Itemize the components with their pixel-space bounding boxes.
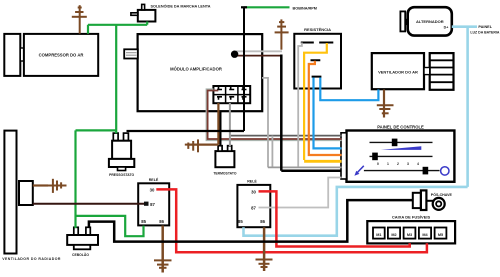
panel AC circle [441, 167, 449, 175]
wire green BOBINA/RPM stub [244, 6, 317, 10]
svg-text:CEBOLÃO: CEBOLÃO [72, 252, 89, 257]
panel slider 3 [364, 167, 440, 175]
svg-text:86: 86 [159, 219, 164, 224]
wire red relay K2 30 to fuse M3 [259, 191, 410, 246]
wire dark-gray to panel [230, 135, 342, 137]
ground G4 (brown) [154, 260, 172, 267]
wire yellow resistor pack to panel [304, 43, 341, 161]
fuse M5 [435, 228, 447, 239]
svg-text:TERMOSTATO: TERMOSTATO [213, 171, 237, 175]
wire brown relay K2 86 down [263, 227, 266, 271]
svg-text:COMPRESSOR DO AR: COMPRESSOR DO AR [39, 53, 84, 58]
radiator fan VENTILADOR DO RADIADOR [2, 131, 61, 261]
relay K1 box [138, 177, 169, 225]
wire gray from junction dot to ground stem [236, 50, 282, 52]
panel fan speed numbers [377, 162, 419, 166]
ground G2 (brown, above resistor pack) [275, 19, 289, 49]
svg-text:30: 30 [150, 187, 155, 192]
ground G5 (brown) [256, 260, 273, 268]
module box MODULO AMPLIFICADOR [138, 34, 263, 111]
ground G7 (sideways right, brown) [48, 179, 67, 193]
svg-text:87: 87 [251, 205, 256, 210]
wire black pressostato to module connector [127, 130, 245, 132]
radiator fan side box [19, 181, 33, 205]
svg-text:LUZ DA BATERIA: LUZ DA BATERIA [470, 30, 499, 34]
svg-text:SOLENÓIDE DA MARCHA LENTA: SOLENÓIDE DA MARCHA LENTA [151, 4, 211, 9]
svg-text:M5: M5 [438, 233, 443, 237]
svg-text:M3: M3 [407, 233, 412, 237]
wire pale-blue long run to relay K2 85 [244, 27, 468, 236]
svg-text:M1: M1 [376, 233, 381, 237]
wire maroon module connector to panel [208, 91, 342, 140]
fuse M2 [388, 228, 400, 239]
svg-text:0: 0 [377, 162, 379, 166]
wire gray connector to thermostat [229, 103, 231, 146]
wire brown module connector to side ground [188, 103, 218, 145]
wire gray relay K2 87 to panel [259, 178, 342, 208]
panel recirculation arrow [354, 166, 363, 176]
svg-text:BOBINA/RPM: BOBINA/RPM [293, 6, 317, 10]
fuse M4 [419, 228, 431, 239]
wire gray lower run to panel [268, 166, 342, 168]
label PAINEL LUZ DA BATERIA [470, 25, 499, 35]
svg-text:30: 30 [251, 189, 256, 194]
fuse M1 [373, 228, 385, 239]
svg-text:VENTILADOR DO RADIADOR: VENTILADOR DO RADIADOR [2, 257, 61, 261]
thermostat TERMOSTATO [213, 146, 237, 176]
wire red relay K1 30 to fuse M4 [156, 189, 427, 252]
wire brown fan box to ground [383, 90, 385, 118]
svg-text:87: 87 [150, 202, 155, 207]
wire dark-maroon from junction dot [236, 55, 281, 57]
panel slider 1 [370, 139, 433, 147]
temp sender CEBOLAO [67, 227, 98, 257]
panel left connector [341, 133, 347, 179]
compressor main box COMPRESSOR DO AR [24, 34, 98, 76]
svg-text:MÓDULO AMPLIFICADOR: MÓDULO AMPLIFICADOR [170, 67, 222, 72]
svg-text:3: 3 [407, 162, 409, 166]
svg-text:RESISTÊNCIA: RESISTÊNCIA [304, 27, 331, 32]
wire blue resistor pack to fan box [320, 78, 378, 101]
svg-text:RELÉ: RELÉ [247, 179, 257, 184]
svg-text:D+: D+ [444, 26, 449, 30]
fuse M3 [404, 228, 416, 239]
svg-text:85: 85 [238, 219, 243, 224]
pressure switch PRESSOSTATO [109, 133, 135, 177]
wire gray short link [271, 136, 273, 168]
relay K2 box [237, 179, 270, 228]
svg-text:CAIXA DE FUSÍVEIS: CAIXA DE FUSÍVEIS [392, 215, 431, 220]
wire brown relay K1 86 down [161, 226, 164, 273]
svg-text:PAINEL: PAINEL [478, 25, 492, 29]
wire black module to thermostat [220, 111, 222, 146]
alternator ALTERNADOR [400, 7, 451, 35]
ignition switch POS-CHAVE [413, 190, 453, 210]
panel slider 2 [370, 153, 433, 161]
module 6-pin connector block [213, 86, 250, 103]
svg-text:PÓS-CHAVE: PÓS-CHAVE [431, 192, 453, 197]
wire orange resistor pack to panel [309, 61, 342, 155]
resistor pack box RESISTENCIA [294, 27, 341, 88]
compressor connector nub [20, 48, 24, 61]
svg-text:RELÉ: RELÉ [149, 177, 159, 182]
svg-text:85: 85 [141, 219, 146, 224]
wire blue resistor pack to panel [314, 78, 342, 149]
wire black BOBINA/RPM vertical [241, 6, 247, 131]
svg-text:PRESSOSTATO: PRESSOSTATO [109, 173, 134, 177]
ground G1 (brown, above compressor) [72, 5, 87, 33]
wire gray resistor pack to lower run [298, 43, 302, 167]
ground G6 (sideways left, brown) [185, 139, 198, 152]
wire pale-blue alternator D+ to panel label [452, 25, 477, 28]
svg-text:ALTERNADOR: ALTERNADOR [416, 19, 444, 24]
ground G3 (brown) [377, 105, 394, 113]
svg-text:1: 1 [387, 162, 389, 166]
fan-block nub [424, 68, 430, 75]
fuse box CAIXA DE FUSIVEIS [367, 215, 455, 244]
module left connector (hatched) [124, 49, 138, 58]
wire gray module right stub down [262, 78, 268, 167]
compressor U1 small side box [4, 34, 20, 76]
panel temperature wedge [381, 146, 422, 150]
solenoid SOLENOIDE DA MARCHA LENTA [131, 4, 211, 22]
wire gray module connector branch (left, down, right to panel) [206, 89, 341, 140]
wire black cebolao to ignition switch [89, 200, 413, 242]
junction dot [231, 51, 238, 58]
svg-text:M4: M4 [422, 233, 428, 237]
fan resistor block [430, 53, 454, 90]
wire green solenoid / compressor / pressostato / cebolao / relay K1 85 [76, 22, 148, 237]
svg-text:VENTILADOR DO AR: VENTILADOR DO AR [378, 70, 418, 75]
svg-text:86: 86 [260, 219, 265, 224]
svg-text:2: 2 [397, 162, 399, 166]
svg-text:PAINEL DE CONTROLE: PAINEL DE CONTROLE [377, 124, 424, 129]
svg-text:4: 4 [417, 162, 419, 166]
wire brown radiator fan side box to ground [33, 184, 48, 186]
wire dark-maroon radiator fan to relay K1 87 [33, 202, 149, 206]
control panel box PAINEL DE CONTROLE [347, 124, 455, 181]
wire black from dot corner down to panel [281, 55, 341, 171]
svg-text:M2: M2 [391, 233, 396, 237]
fan box VENTILADOR DO AR [372, 53, 424, 89]
